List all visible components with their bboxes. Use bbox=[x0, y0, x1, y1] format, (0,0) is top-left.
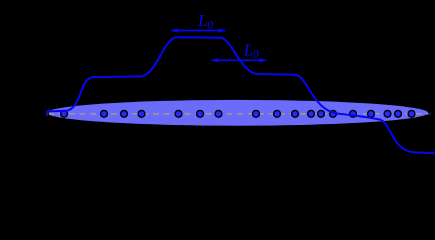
lattice dot 3 bbox=[121, 110, 128, 117]
lattice dot 11 bbox=[308, 110, 315, 117]
lattice dot 14 bbox=[350, 110, 357, 117]
lattice dot 12 bbox=[318, 110, 325, 117]
lattice dot 16 bbox=[384, 110, 391, 117]
lattice dot 17 bbox=[395, 110, 402, 117]
dashed center line bbox=[48, 113, 429, 115]
lattice dot 2 bbox=[101, 110, 108, 117]
left tip tick bbox=[46, 111, 49, 117]
svg-text:L: L bbox=[197, 11, 207, 30]
svg-text:L: L bbox=[243, 40, 253, 59]
svg-text:0: 0 bbox=[207, 19, 213, 31]
stepped phase curve bbox=[47, 37, 435, 153]
lattice dot 4 bbox=[138, 110, 145, 117]
condensate ellipse bbox=[47, 100, 428, 126]
lattice dot 6 bbox=[197, 110, 204, 117]
lattice dot 8 bbox=[253, 110, 260, 117]
L0 width arrow (right step) bbox=[211, 58, 268, 62]
lattice dot 9 bbox=[274, 110, 281, 117]
lattice dot 5 bbox=[175, 110, 182, 117]
lattice dot 1 bbox=[61, 110, 68, 117]
lattice dot 7 bbox=[215, 110, 222, 117]
lattice dot 15 bbox=[368, 110, 375, 117]
L0 width arrow (top) bbox=[170, 28, 227, 32]
right tip tick bbox=[429, 112, 431, 116]
lattice dot 18 bbox=[408, 110, 415, 117]
lattice dot 10 bbox=[292, 110, 299, 117]
lattice dot 13 bbox=[330, 110, 337, 117]
svg-text:0: 0 bbox=[253, 49, 259, 61]
